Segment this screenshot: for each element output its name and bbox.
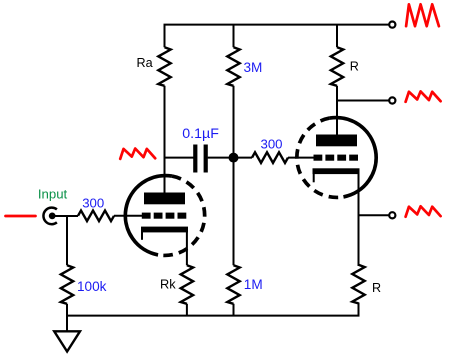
svg-text:R: R bbox=[372, 281, 381, 295]
svg-text:Input: Input bbox=[38, 187, 68, 202]
svg-text:100k: 100k bbox=[77, 279, 107, 294]
svg-text:3M: 3M bbox=[244, 60, 263, 75]
svg-text:1M: 1M bbox=[244, 277, 263, 292]
svg-text:300: 300 bbox=[261, 137, 283, 152]
svg-text:Ra: Ra bbox=[137, 56, 153, 70]
svg-text:0.1µF: 0.1µF bbox=[182, 126, 219, 142]
svg-text:Rk: Rk bbox=[160, 277, 176, 292]
svg-text:300: 300 bbox=[82, 195, 104, 210]
svg-text:R: R bbox=[350, 59, 359, 73]
